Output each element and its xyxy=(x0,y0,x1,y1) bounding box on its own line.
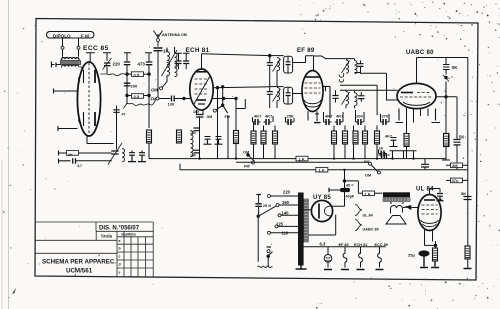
svg-text:OM: OM xyxy=(151,87,158,92)
svg-text:OM: OM xyxy=(365,174,371,178)
svg-text:47n: 47n xyxy=(452,178,459,183)
svg-text:UABC 80: UABC 80 xyxy=(363,228,379,232)
svg-text:4K7: 4K7 xyxy=(385,135,392,139)
svg-text:4,7: 4,7 xyxy=(77,164,82,168)
svg-text:1 K: 1 K xyxy=(319,168,325,173)
svg-text:F M: F M xyxy=(81,33,89,38)
svg-text:40 =: 40 = xyxy=(346,183,354,187)
svg-text:1 K: 1 K xyxy=(299,157,305,162)
svg-text:5K: 5K xyxy=(452,65,457,70)
svg-text:5K: 5K xyxy=(459,135,464,140)
svg-text:1K: 1K xyxy=(163,49,169,54)
svg-text:c: c xyxy=(119,255,121,259)
svg-text:25µ: 25µ xyxy=(408,253,415,258)
svg-text:473: 473 xyxy=(138,62,146,67)
svg-text:modifiche: modifiche xyxy=(121,233,136,237)
svg-text:6,3: 6,3 xyxy=(320,242,326,247)
svg-text:0,5: 0,5 xyxy=(134,72,140,77)
svg-text:SCHEMA PER APPAREC.: SCHEMA PER APPAREC. xyxy=(42,259,116,266)
svg-text:DIPOLO: DIPOLO xyxy=(53,33,71,38)
svg-text:FM: FM xyxy=(151,96,158,101)
svg-text:UCM/561: UCM/561 xyxy=(66,268,93,275)
svg-text:47: 47 xyxy=(122,113,126,117)
svg-text:220: 220 xyxy=(113,62,121,67)
svg-text:0,5: 0,5 xyxy=(134,94,140,99)
svg-text:25 K: 25 K xyxy=(263,203,272,208)
svg-text:270: 270 xyxy=(382,114,389,119)
svg-text:130: 130 xyxy=(168,102,175,107)
svg-text:DIS. N.°056/07: DIS. N.°056/07 xyxy=(99,226,140,232)
svg-text:UABC 80: UABC 80 xyxy=(406,50,434,56)
svg-text:1 K: 1 K xyxy=(365,192,371,197)
svg-text:4K7: 4K7 xyxy=(325,114,333,119)
svg-text:UL 84: UL 84 xyxy=(416,187,434,193)
svg-text:100: 100 xyxy=(356,114,363,119)
svg-text:OM: OM xyxy=(207,115,213,119)
svg-text:ANTENNA OM: ANTENNA OM xyxy=(162,33,187,37)
svg-text:4K7: 4K7 xyxy=(336,114,344,119)
svg-text:e: e xyxy=(119,271,121,275)
svg-text:FM: FM xyxy=(244,165,249,169)
svg-text:200: 200 xyxy=(131,84,138,89)
svg-text:FM: FM xyxy=(364,160,369,164)
svg-text:ECC 85: ECC 85 xyxy=(375,243,388,247)
svg-text:ECC 85: ECC 85 xyxy=(83,45,109,52)
svg-text:Scala: Scala xyxy=(101,234,113,239)
svg-text:4K7: 4K7 xyxy=(265,114,273,119)
svg-text:d: d xyxy=(119,263,121,267)
svg-text:40µF: 40µF xyxy=(346,195,355,199)
svg-text:160: 160 xyxy=(282,200,290,205)
svg-text:140: 140 xyxy=(282,210,290,215)
svg-text:OM: OM xyxy=(243,151,249,155)
svg-text:125: 125 xyxy=(276,222,284,227)
svg-text:4K7: 4K7 xyxy=(254,114,262,119)
svg-text:1K: 1K xyxy=(68,153,73,157)
svg-text:b: b xyxy=(119,247,121,251)
svg-text:FM: FM xyxy=(225,115,230,119)
svg-text:a: a xyxy=(119,239,121,243)
svg-text:100: 100 xyxy=(190,154,196,158)
svg-text:110: 110 xyxy=(282,231,289,236)
svg-text:100: 100 xyxy=(193,110,199,114)
svg-text:1K: 1K xyxy=(379,147,384,151)
svg-text:UL 84: UL 84 xyxy=(363,214,374,218)
svg-text:25K: 25K xyxy=(287,114,294,119)
svg-text:100: 100 xyxy=(190,131,196,135)
svg-text:5K: 5K xyxy=(461,191,466,196)
svg-text:1K: 1K xyxy=(438,198,443,202)
svg-text:ECH 81: ECH 81 xyxy=(354,243,367,247)
svg-text:EF 89: EF 89 xyxy=(339,243,349,247)
svg-text:EF 89: EF 89 xyxy=(297,48,315,54)
svg-text:220: 220 xyxy=(283,190,291,195)
svg-text:2M: 2M xyxy=(452,163,458,168)
